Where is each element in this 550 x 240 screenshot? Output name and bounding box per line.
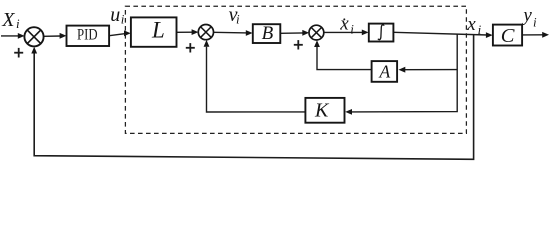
svg-text:i: i [121, 11, 125, 26]
svg-text:L: L [151, 17, 165, 42]
svg-text:x: x [339, 13, 349, 34]
svg-text:K: K [314, 100, 330, 122]
svg-text:B: B [262, 23, 274, 44]
svg-text:i: i [350, 21, 354, 36]
svg-text:PID: PID [77, 26, 98, 44]
svg-text:i: i [16, 16, 20, 31]
svg-text:A: A [379, 61, 391, 81]
svg-text:i: i [533, 15, 537, 30]
svg-text:i: i [478, 22, 482, 37]
svg-text:y: y [521, 5, 532, 26]
svg-text:C: C [501, 25, 515, 47]
svg-text:i: i [236, 12, 240, 27]
svg-text:x: x [466, 14, 476, 35]
svg-text:u: u [110, 4, 120, 26]
svg-text:X: X [1, 9, 15, 31]
